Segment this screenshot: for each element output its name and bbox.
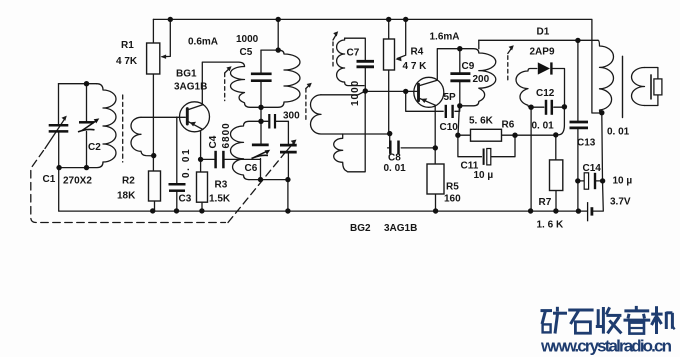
- svg-text:C6: C6: [245, 163, 258, 174]
- svg-text:BG1: BG1: [176, 69, 197, 80]
- svg-text:6800: 6800: [221, 122, 232, 148]
- svg-text:www.crystalradio.cn: www.crystalradio.cn: [540, 337, 672, 356]
- svg-text:1.5K: 1.5K: [209, 194, 231, 205]
- svg-text:C12: C12: [536, 88, 555, 99]
- svg-text:0. 01: 0. 01: [181, 148, 192, 178]
- svg-text:R2: R2: [122, 176, 135, 187]
- svg-text:10 µ: 10 µ: [613, 176, 633, 187]
- svg-text:R7: R7: [539, 197, 552, 208]
- svg-text:5. 6K: 5. 6K: [469, 116, 494, 127]
- svg-text:10 µ: 10 µ: [474, 170, 494, 181]
- svg-text:2AP9: 2AP9: [530, 47, 555, 58]
- svg-text:C4: C4: [208, 135, 219, 148]
- svg-text:18K: 18K: [117, 191, 136, 202]
- svg-text:R4: R4: [411, 47, 424, 58]
- svg-text:4 7 K: 4 7 K: [403, 61, 428, 72]
- svg-text:200: 200: [473, 74, 490, 85]
- svg-text:C5: C5: [240, 47, 253, 58]
- svg-text:5P: 5P: [444, 92, 457, 103]
- svg-text:C2: C2: [88, 142, 101, 153]
- svg-text:C1: C1: [43, 174, 56, 185]
- svg-text:1000: 1000: [350, 80, 361, 106]
- svg-text:R6: R6: [502, 120, 515, 131]
- svg-text:0. 01: 0. 01: [384, 163, 407, 174]
- svg-text:R1: R1: [121, 40, 134, 51]
- svg-text:0. 01: 0. 01: [607, 127, 630, 138]
- svg-text:D1: D1: [537, 27, 550, 38]
- svg-text:300: 300: [283, 111, 300, 122]
- svg-text:C3: C3: [179, 194, 192, 205]
- svg-text:R5: R5: [446, 182, 459, 193]
- svg-text:4 7K: 4 7K: [116, 56, 138, 67]
- svg-text:C7: C7: [347, 48, 360, 59]
- svg-text:C8: C8: [388, 153, 401, 164]
- svg-text:160: 160: [444, 194, 461, 205]
- svg-text:0. 01: 0. 01: [532, 121, 555, 132]
- svg-text:BG2: BG2: [350, 223, 371, 234]
- svg-text:270X2: 270X2: [63, 176, 92, 187]
- svg-text:3AG1B: 3AG1B: [174, 82, 207, 93]
- svg-text:C9: C9: [462, 61, 475, 72]
- svg-text:1.6mA: 1.6mA: [430, 32, 460, 43]
- svg-text:R3: R3: [215, 180, 228, 191]
- svg-text:C10: C10: [440, 122, 459, 133]
- svg-text:C13: C13: [577, 138, 596, 149]
- svg-text:0.6mA: 0.6mA: [188, 37, 218, 48]
- svg-text:1000: 1000: [236, 34, 259, 45]
- svg-text:1. 6 K: 1. 6 K: [537, 220, 564, 231]
- svg-text:3AG1B: 3AG1B: [384, 223, 417, 234]
- svg-text:C14: C14: [583, 163, 602, 174]
- svg-text:3.7V: 3.7V: [610, 197, 631, 208]
